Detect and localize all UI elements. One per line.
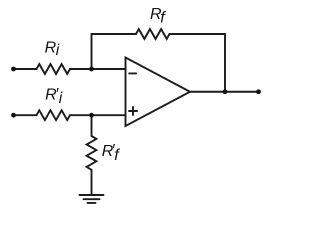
op-amp U1: [126, 58, 191, 127]
wire: [70, 114, 126, 116]
svg-text:i: i: [59, 90, 63, 107]
wire R'f bottom vertical: [91, 170, 93, 195]
wire input 1 to inverting input: [14, 68, 37, 70]
wire R'f top vertical: [91, 115, 93, 136]
op-amp U1 plus sign: [129, 110, 137, 112]
node junction non-inverting: [89, 113, 94, 118]
resistor R1 (Ri): [37, 64, 71, 74]
node output terminal: [256, 89, 261, 94]
svg-text:f: f: [114, 147, 120, 164]
wire: [70, 68, 126, 70]
wire feedback left vertical: [92, 34, 137, 69]
resistor R2 (R'i): [37, 110, 71, 120]
node junction inverting: [89, 67, 94, 72]
node input 2 terminal: [11, 113, 16, 118]
wire feedback right vertical: [170, 34, 226, 92]
op-amp U1 minus sign: [129, 72, 136, 74]
node input 1 terminal: [11, 67, 16, 72]
wire output: [190, 91, 259, 93]
node junction output-feedback: [223, 89, 228, 94]
ground: [80, 194, 104, 196]
svg-text:i: i: [56, 42, 60, 59]
resistor R3 (Rf): [136, 29, 170, 39]
resistor R4 (R'f) vertical: [87, 136, 97, 170]
svg-text:f: f: [160, 10, 166, 27]
wire input 2 to non-inverting input: [14, 114, 37, 116]
